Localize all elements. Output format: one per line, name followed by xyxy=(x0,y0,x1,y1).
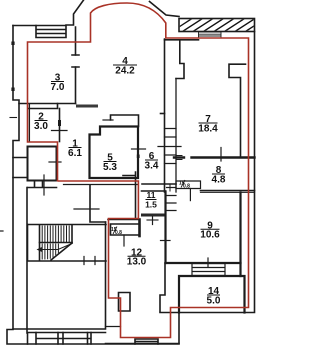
svg-text:3.0: 3.0 xyxy=(34,121,48,132)
svg-text:18.4: 18.4 xyxy=(198,123,218,134)
svg-text:7.0: 7.0 xyxy=(51,82,65,93)
svg-text:4.8: 4.8 xyxy=(212,174,226,185)
svg-text:13.0: 13.0 xyxy=(127,257,147,268)
svg-text:10.6: 10.6 xyxy=(200,230,220,241)
svg-text:0.8: 0.8 xyxy=(115,230,122,236)
svg-text:6.1: 6.1 xyxy=(68,148,82,159)
svg-text:1.5: 1.5 xyxy=(145,199,157,209)
svg-text:5.3: 5.3 xyxy=(103,162,117,173)
svg-text:5.0: 5.0 xyxy=(207,295,221,306)
svg-text:0.8: 0.8 xyxy=(183,184,190,190)
svg-text:24.2: 24.2 xyxy=(115,65,135,76)
svg-text:3.4: 3.4 xyxy=(145,160,159,171)
